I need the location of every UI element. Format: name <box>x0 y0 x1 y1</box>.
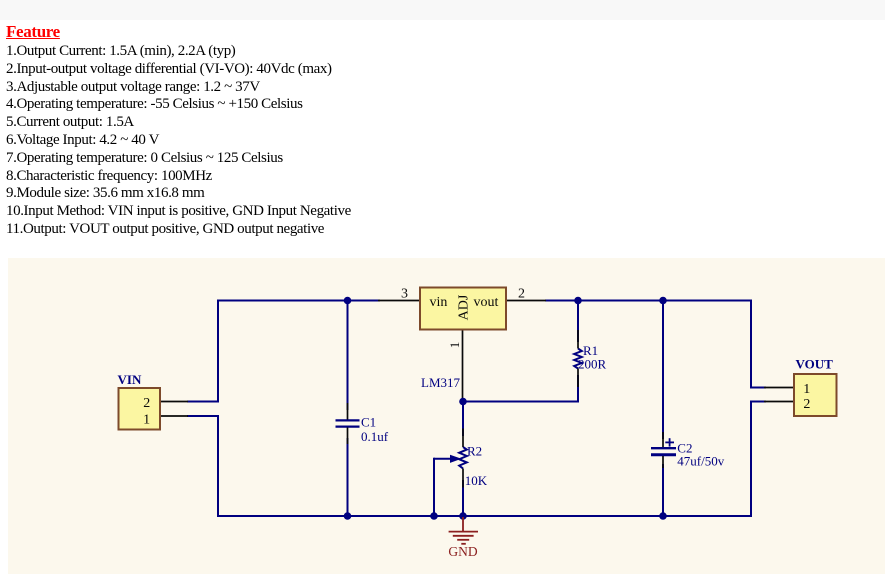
svg-text:200R: 200R <box>578 357 607 372</box>
svg-text:0.1uf: 0.1uf <box>361 429 389 444</box>
svg-text:1: 1 <box>447 342 462 349</box>
svg-text:3: 3 <box>401 287 408 302</box>
svg-text:ADJ: ADJ <box>457 294 472 320</box>
svg-text:C1: C1 <box>361 415 376 430</box>
svg-text:47uf/50v: 47uf/50v <box>677 454 724 469</box>
svg-text:LM317: LM317 <box>421 375 461 390</box>
svg-text:VOUT: VOUT <box>796 357 834 372</box>
svg-text:2: 2 <box>518 287 525 302</box>
svg-text:R2: R2 <box>467 443 482 458</box>
svg-text:vout: vout <box>474 295 499 310</box>
svg-text:1: 1 <box>143 413 150 428</box>
svg-text:2: 2 <box>803 397 810 412</box>
svg-text:VIN: VIN <box>118 372 142 387</box>
svg-text:1: 1 <box>803 382 810 397</box>
svg-text:vin: vin <box>430 295 448 310</box>
svg-text:10K: 10K <box>465 473 488 488</box>
svg-text:GND: GND <box>448 544 477 559</box>
svg-text:2: 2 <box>143 396 150 411</box>
